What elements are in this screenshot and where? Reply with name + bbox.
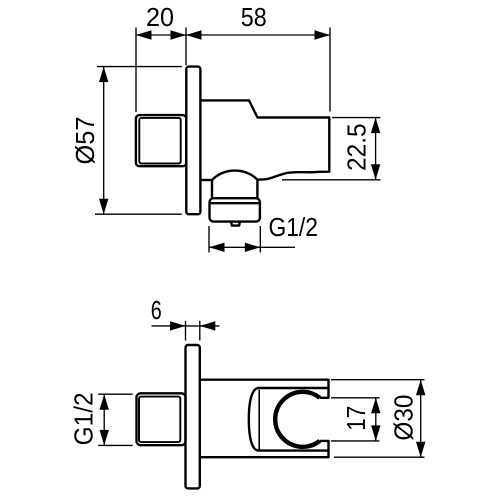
- arrow 22.5 down: [371, 164, 380, 180]
- dim 17 line: [375, 398, 377, 441]
- arrow 17 down: [371, 425, 380, 441]
- arrow 6 left (outside): [170, 321, 186, 330]
- dim 17 bottom ext: [331, 440, 380, 442]
- svg-text:G1/2: G1/2: [268, 214, 318, 242]
- dia30 top ext: [331, 379, 425, 381]
- svg-text:58: 58: [241, 4, 267, 32]
- arrow 17 up: [371, 398, 380, 414]
- svg-text:22.5: 22.5: [344, 123, 372, 171]
- flange (wall plate, bottom view): [186, 345, 200, 488]
- 22.5 bottom ext: [282, 179, 381, 181]
- dim 20/58 line: [136, 34, 330, 36]
- svg-text:G1/2: G1/2: [71, 392, 99, 445]
- arrow G1/2 vert down: [100, 430, 109, 446]
- holder face crease line: [258, 390, 260, 450]
- arrow G1/2 right: [245, 243, 260, 252]
- svg-text:Ø30: Ø30: [391, 395, 419, 441]
- svg-text:6: 6: [151, 297, 162, 325]
- arrow dia57 down: [99, 199, 108, 215]
- body bottom edge left of dome: [200, 179, 212, 181]
- dim 6 ext right: [199, 321, 201, 341]
- arrow G1/2 left: [209, 243, 225, 252]
- dim 22.5 line: [375, 118, 377, 180]
- arrow dia57 up: [99, 67, 108, 83]
- holder face left bulge: [249, 388, 259, 451]
- nut inner line: [211, 202, 259, 204]
- svg-text:Ø57: Ø57: [72, 117, 100, 165]
- dim 6 ext left: [185, 321, 187, 341]
- svg-text:20: 20: [146, 4, 174, 32]
- arrow 6 right (outside): [200, 321, 216, 330]
- arrow 20 left: [136, 30, 152, 39]
- G1/2 top dim line + leader: [209, 246, 295, 248]
- inlet inner outline: [139, 118, 180, 164]
- G1/2 ext right: [259, 226, 261, 253]
- outlet sides: [211, 180, 213, 198]
- 22.5 top ext: [332, 117, 381, 119]
- body outline (top view): [200, 100, 329, 179]
- svg-text:17: 17: [343, 406, 371, 431]
- G1/2 vert bottom ext: [98, 444, 133, 446]
- arrow dia30 up: [416, 380, 425, 396]
- body outline (bottom view): [200, 380, 329, 458]
- flange (wall plate, top view): [186, 67, 200, 215]
- holder face bottom edge: [259, 449, 329, 451]
- dia57 top ext: [97, 66, 182, 68]
- arrow 58 right: [315, 30, 331, 39]
- arrow 58 left: [186, 30, 202, 39]
- ext line x186: [185, 28, 187, 66]
- G1/2 vert dim line: [103, 394, 105, 445]
- dia30 dim line: [420, 380, 422, 458]
- dia30 bottom ext: [334, 456, 425, 458]
- inlet2 inner outline: [139, 397, 180, 443]
- outlet dome: [212, 171, 257, 180]
- G1/2 ext left: [208, 226, 210, 253]
- holder face top edge: [259, 387, 329, 389]
- arrow dia30 down: [416, 442, 425, 458]
- arrow 20 right: [171, 30, 187, 39]
- dia57 bottom ext: [95, 213, 182, 215]
- nib under nut: [231, 222, 240, 226]
- holder C-ring: [275, 392, 320, 447]
- dia57 dim line: [103, 67, 105, 215]
- arrow 22.5 up: [371, 118, 380, 134]
- ext line x136: [135, 28, 137, 113]
- ext line x330: [329, 28, 331, 112]
- dim 6 line: [152, 325, 220, 327]
- dim 17 top ext: [331, 397, 380, 399]
- outlet nut (cap): [210, 198, 260, 221]
- G1/2 vert top ext: [98, 393, 133, 395]
- threaded inlet G1/2 (top view): [136, 115, 186, 166]
- arrow G1/2 vert up: [100, 394, 109, 410]
- threaded inlet G1/2 (bottom view): [137, 393, 186, 445]
